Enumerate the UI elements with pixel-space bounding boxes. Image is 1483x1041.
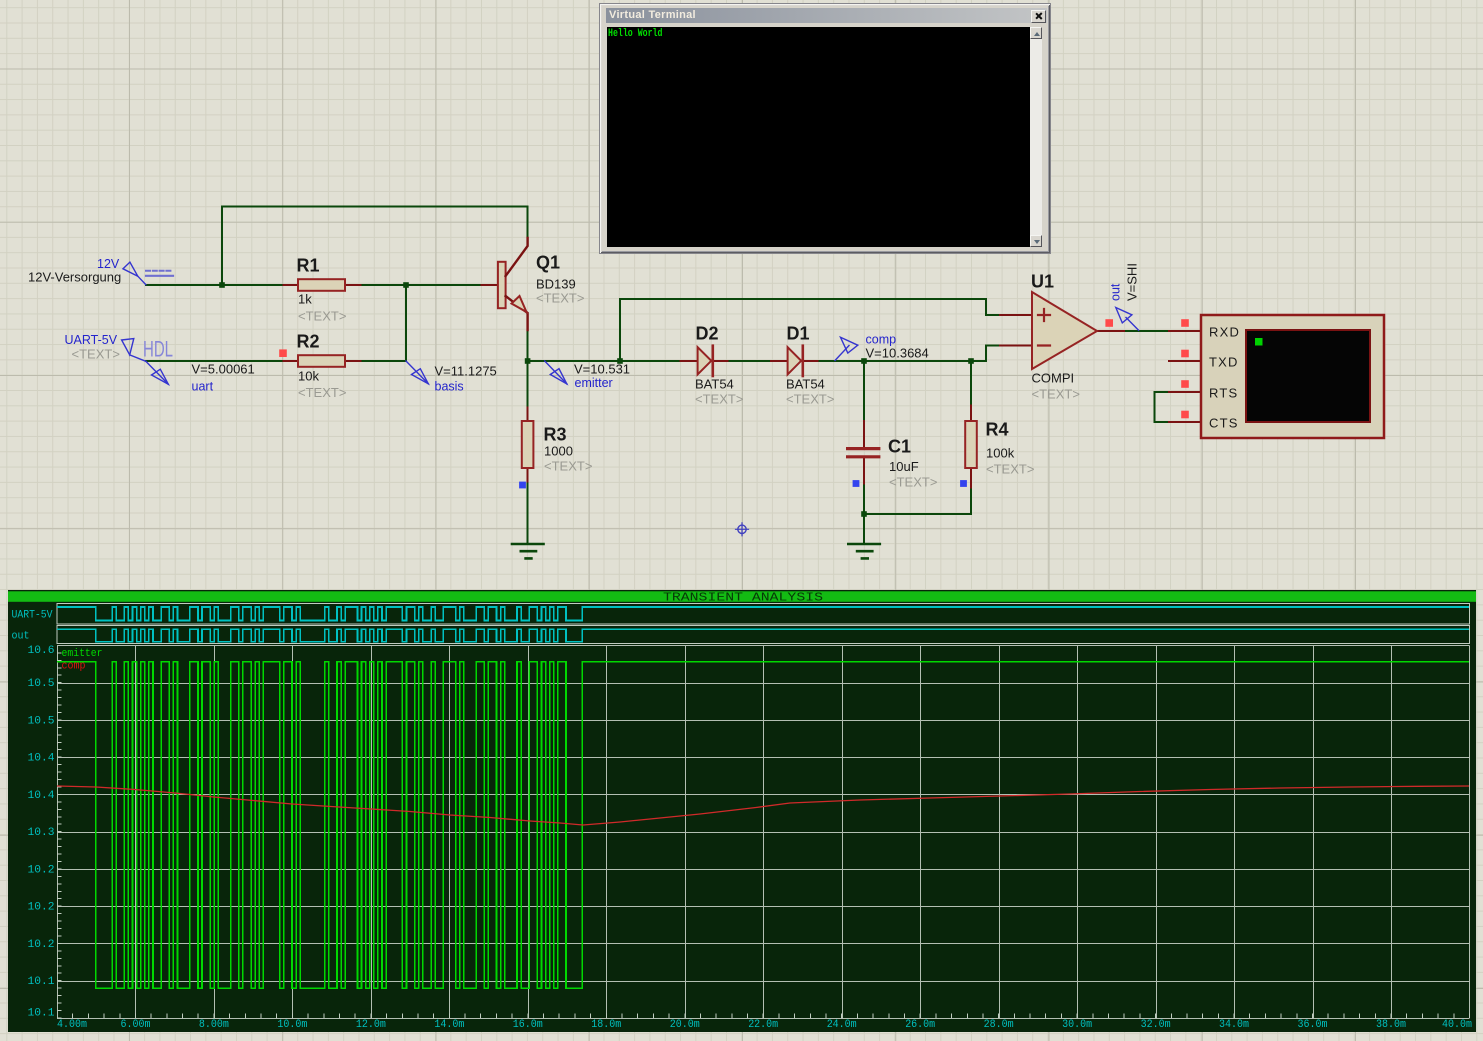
svg-text:10.1: 10.1 [28, 1007, 55, 1019]
resistor R2 [298, 355, 345, 367]
svg-text:COMPI: COMPI [1032, 371, 1075, 386]
wire junctions [219, 282, 225, 288]
svg-text:HDL: HDL [143, 337, 173, 362]
graph title bar [8, 591, 1476, 602]
terminal screen [607, 27, 1030, 247]
wire R4 top branch [970, 361, 972, 406]
wire branch riser x=620 [619, 299, 621, 361]
svg-text:32.0m: 32.0m [1141, 1019, 1171, 1031]
wire R3 top branch [527, 361, 529, 408]
voltage probe out [1126, 318, 1139, 331]
svg-text:14.0m: 14.0m [434, 1019, 464, 1031]
svg-text:<TEXT>: <TEXT> [536, 291, 584, 306]
diode D2 BAT54 [698, 347, 712, 374]
voltage probe basis [406, 361, 428, 384]
svg-text:TXD: TXD [1209, 355, 1239, 370]
12V power rail symbol [146, 270, 173, 272]
svg-text:R4: R4 [986, 420, 1009, 440]
wire C1 top branch [863, 361, 865, 421]
svg-text:6.00m: 6.00m [121, 1019, 151, 1031]
pin lead U1 pins [1000, 315, 1124, 346]
wire top feedback rail y=207 [222, 206, 528, 208]
svg-text:18.0m: 18.0m [591, 1019, 621, 1031]
svg-text:1k: 1k [298, 292, 312, 307]
close button [1031, 10, 1046, 23]
wire 12V supply to R1 [146, 284, 283, 286]
op-amp U1 COMPI [1032, 292, 1097, 369]
instrument cursor (green square) [1255, 338, 1263, 346]
svg-text:10.3: 10.3 [28, 827, 55, 839]
ground symbol (C1/R4) [848, 544, 880, 558]
svg-text:<TEXT>: <TEXT> [786, 392, 834, 407]
svg-text:1000: 1000 [544, 444, 573, 459]
svg-text:uart: uart [192, 380, 214, 394]
power terminal 12V [138, 276, 146, 284]
wire step into U1 - input [986, 346, 1000, 362]
virtual terminal instrument body [1201, 315, 1384, 438]
voltage probe comp [835, 346, 849, 361]
svg-text:D2: D2 [696, 324, 719, 344]
svg-text:10.5: 10.5 [28, 678, 55, 690]
svg-text:emitter: emitter [575, 376, 613, 390]
wire emitter drop [527, 330, 529, 361]
svg-text:BD139: BD139 [536, 277, 576, 292]
wire left vertical drop x=222 [221, 207, 223, 285]
svg-text:26.0m: 26.0m [905, 1019, 935, 1031]
wire R2 right lead to riser [361, 360, 407, 362]
svg-text:12.0m: 12.0m [356, 1019, 386, 1031]
svg-text:<TEXT>: <TEXT> [72, 347, 120, 362]
digital trace boxes [57, 604, 1470, 625]
wire UART-5V terminal to R2 [146, 360, 283, 362]
capacitor C1 [848, 447, 879, 450]
svg-text:40.0m: 40.0m [1442, 1019, 1472, 1031]
svg-text:<TEXT>: <TEXT> [298, 385, 346, 400]
digital waveform out [57, 629, 1469, 641]
svg-text:10k: 10k [298, 369, 319, 384]
pin lead D1 pins [771, 360, 818, 362]
svg-text:<TEXT>: <TEXT> [889, 475, 937, 490]
svg-text:10.2: 10.2 [28, 902, 55, 914]
svg-text:out: out [1109, 283, 1123, 301]
wire RTS-CTS loop [1155, 392, 1169, 422]
svg-text:<TEXT>: <TEXT> [298, 309, 346, 324]
red pin markers [279, 349, 287, 357]
graph vertical gridlines [58, 645, 1470, 1018]
svg-text:TRANSIENT ANALYSIS: TRANSIENT ANALYSIS [663, 591, 823, 604]
svg-text:V=SHI: V=SHI [1125, 263, 1140, 301]
svg-text:28.0m: 28.0m [984, 1019, 1014, 1031]
blue origin markers [519, 482, 526, 489]
svg-text:<TEXT>: <TEXT> [544, 459, 592, 474]
svg-text:22.0m: 22.0m [748, 1019, 778, 1031]
svg-text:V=10.531: V=10.531 [574, 362, 630, 377]
graph panel: transient analysis plot [8, 590, 1476, 1032]
resistor R3 [522, 421, 534, 468]
svg-text:R2: R2 [297, 332, 320, 352]
diode D1 BAT54 [788, 347, 802, 374]
svg-text:10uF: 10uF [889, 459, 919, 474]
svg-text:CTS: CTS [1209, 416, 1239, 431]
analog waveform emitter (green) [57, 662, 1469, 989]
svg-text:U1: U1 [1031, 272, 1054, 292]
svg-text:34.0m: 34.0m [1219, 1019, 1249, 1031]
svg-text:10.5: 10.5 [28, 715, 55, 727]
svg-text:V=5.00061: V=5.00061 [192, 362, 255, 377]
wire C1 rail to ground [863, 514, 865, 543]
wire U1 output to RXD [1124, 330, 1169, 332]
svg-text:Q1: Q1 [536, 253, 560, 273]
resistor R1 [298, 279, 345, 291]
svg-text:<TEXT>: <TEXT> [695, 392, 743, 407]
svg-text:36.0m: 36.0m [1298, 1019, 1328, 1031]
pin lead terminal instrument pins [1169, 331, 1201, 422]
graph horizontal gridlines [57, 646, 1470, 1019]
resistor R4 [965, 421, 977, 468]
axis tick marks [57, 653, 1470, 1018]
svg-text:C1: C1 [888, 437, 911, 457]
svg-text:D1: D1 [787, 324, 810, 344]
wire R1 to Q1 base [361, 284, 482, 286]
svg-text:R1: R1 [297, 256, 320, 276]
svg-text:BAT54: BAT54 [786, 377, 825, 392]
instrument pin names [1209, 325, 1240, 431]
pin lead R3 pins [527, 408, 529, 482]
wire R4 bottom branch [970, 487, 972, 514]
pin lead D2 pins [680, 360, 727, 362]
svg-text:UART-5V: UART-5V [65, 333, 118, 347]
digital waveform UART-5V [57, 607, 1469, 621]
svg-text:10.1: 10.1 [28, 976, 55, 988]
wire D1 cathode row [817, 360, 986, 362]
svg-text:V=10.3684: V=10.3684 [866, 346, 929, 361]
wire emitter row to D2 [528, 360, 681, 362]
wire bottom rail C1-R4 [864, 513, 971, 515]
input terminal UART-5V (HDL) [130, 355, 146, 361]
wire R3 to ground [527, 482, 529, 543]
svg-text:4.00m: 4.00m [57, 1019, 87, 1031]
svg-text:comp: comp [866, 333, 897, 347]
sheet origin crosshair [738, 525, 746, 533]
svg-text:12V-Versorgung: 12V-Versorgung [28, 270, 121, 285]
svg-text:10.2: 10.2 [28, 864, 55, 876]
svg-text:V=11.1275: V=11.1275 [435, 364, 497, 379]
wire C1 bottom branch [863, 484, 865, 514]
wire step into U1 + input [986, 299, 1000, 315]
svg-text:BAT54: BAT54 [695, 377, 734, 392]
pin lead R1 pins [283, 284, 360, 286]
voltage probe emitter [545, 361, 567, 384]
svg-text:<TEXT>: <TEXT> [1032, 387, 1080, 402]
svg-text:10.6: 10.6 [28, 645, 55, 657]
scrollbar [1030, 27, 1042, 247]
wire collector riser [527, 207, 529, 238]
transistor Q1 BD139 [498, 262, 506, 308]
svg-text:out: out [12, 631, 30, 643]
svg-text:10.4: 10.4 [28, 753, 55, 765]
svg-text:100k: 100k [986, 446, 1015, 461]
svg-text:16.0m: 16.0m [513, 1019, 543, 1031]
analog waveform comp (red) [57, 786, 1469, 825]
pin lead Q1 base pin [482, 284, 498, 286]
svg-text:basis: basis [435, 380, 464, 394]
svg-text:20.0m: 20.0m [670, 1019, 700, 1031]
wire comparator + rail y=299 [620, 298, 986, 300]
svg-text:UART-5V: UART-5V [12, 610, 53, 622]
wire D2 to D1 [727, 360, 771, 362]
svg-text:emitter: emitter [62, 648, 103, 660]
svg-text:24.0m: 24.0m [827, 1019, 857, 1031]
svg-text:R3: R3 [544, 425, 567, 445]
svg-text:10.2: 10.2 [28, 939, 55, 951]
svg-text:8.00m: 8.00m [199, 1019, 229, 1031]
svg-text:RXD: RXD [1209, 325, 1240, 340]
svg-text:30.0m: 30.0m [1062, 1019, 1092, 1031]
svg-text:RTS: RTS [1209, 386, 1238, 401]
svg-text:38.0m: 38.0m [1376, 1019, 1406, 1031]
svg-text:10.0m: 10.0m [277, 1019, 307, 1031]
wire R2 riser x=406 [405, 285, 407, 361]
pin lead R2 pins [283, 360, 360, 362]
pin lead C1 pins [863, 421, 865, 484]
voltage probe uart [146, 361, 169, 384]
pin lead R4 pins [970, 406, 972, 488]
svg-text:<TEXT>: <TEXT> [986, 462, 1034, 477]
svg-text:10.4: 10.4 [28, 790, 55, 802]
Virtual Terminal popup window [599, 3, 1051, 254]
ground symbol (R3) [512, 544, 544, 558]
